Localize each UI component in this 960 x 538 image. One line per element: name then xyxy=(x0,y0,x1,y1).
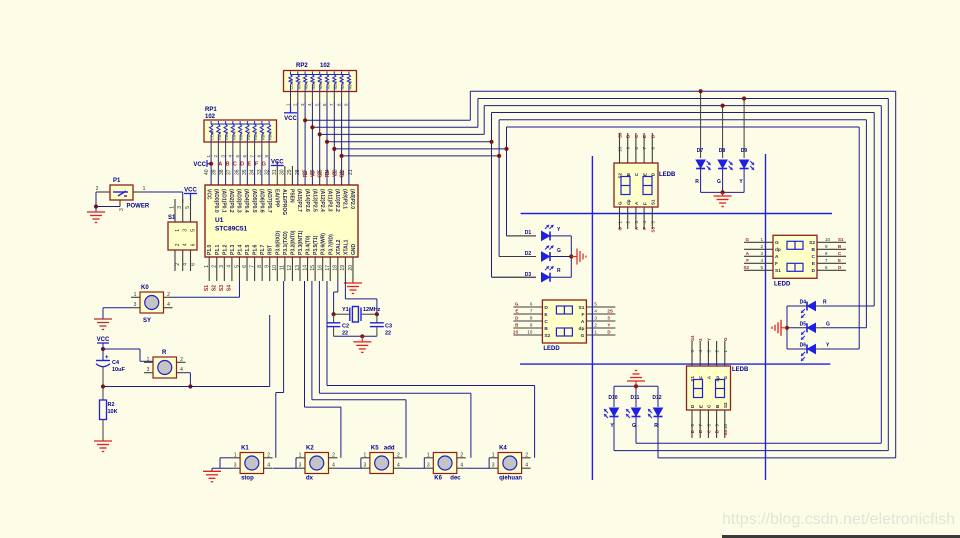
LEDB pin stub bottom 5 xyxy=(651,207,653,229)
svg-text:1: 1 xyxy=(364,452,367,458)
K0 pin 2 wire to U1 P1.4 xyxy=(173,296,240,298)
svg-text:5: 5 xyxy=(234,265,240,268)
svg-text:PSEN: PSEN xyxy=(289,189,295,203)
svg-text:B: B xyxy=(544,326,548,332)
svg-text:14: 14 xyxy=(302,265,308,271)
junction D7-D9 ground xyxy=(721,190,725,194)
svg-text:C3: C3 xyxy=(385,324,392,330)
svg-text:S1: S1 xyxy=(690,376,695,382)
LEDB pin stub top 1 xyxy=(724,341,726,366)
LEDB pin stub bottom 3 xyxy=(635,207,637,229)
svg-text:S3: S3 xyxy=(650,227,655,233)
power VCC above U1 EA pin xyxy=(276,161,278,166)
capacitor C4 10uF xyxy=(102,349,104,360)
RP2 resistor element R8-3 xyxy=(311,72,313,75)
svg-text:32: 32 xyxy=(265,169,271,175)
svg-text:LEDD: LEDD xyxy=(543,346,560,352)
svg-text:D1: D1 xyxy=(525,230,532,236)
svg-text:COM: COM xyxy=(289,80,294,89)
svg-text:G2: G2 xyxy=(318,171,324,178)
svg-text:40: 40 xyxy=(204,169,210,175)
wire net G2 bus (D8/D11) xyxy=(320,133,485,135)
svg-text:STC89C51: STC89C51 xyxy=(215,226,248,233)
LEDD pin stub left 7 xyxy=(513,313,542,315)
wire K5 to U1 P3.4 xyxy=(405,400,407,458)
wire D1-D3 cathode rail xyxy=(551,235,572,237)
svg-text:VCC: VCC xyxy=(284,116,297,122)
RP2 resistor element R8-8 xyxy=(348,72,350,75)
svg-text:4: 4 xyxy=(227,265,233,268)
svg-text:36: 36 xyxy=(234,169,240,175)
svg-text:4: 4 xyxy=(183,263,189,266)
junction RP2 net 5 xyxy=(332,147,336,151)
svg-text:1: 1 xyxy=(170,206,176,209)
RP1 pin 9 wire to U1 xyxy=(268,142,270,156)
svg-text:F: F xyxy=(581,312,584,318)
svg-text:C2: C2 xyxy=(342,324,349,330)
RP2 resistor element R8-4 xyxy=(319,72,321,75)
junction on G1 bus xyxy=(497,154,501,158)
svg-text:4: 4 xyxy=(183,243,189,246)
LEDD pin stub left 6 xyxy=(513,306,542,308)
svg-text:U1: U1 xyxy=(215,217,224,224)
svg-text:(A12)P2.4: (A12)P2.4 xyxy=(319,189,325,212)
svg-text:S2: S2 xyxy=(809,240,815,246)
svg-text:(AD7)P0.7: (AD7)P0.7 xyxy=(266,189,272,213)
svg-text:D: D xyxy=(240,162,244,168)
svg-text:2: 2 xyxy=(460,452,463,458)
svg-text:D7: D7 xyxy=(697,148,704,154)
svg-text:2: 2 xyxy=(175,243,181,246)
svg-text:E: E xyxy=(248,162,252,168)
svg-text:GND: GND xyxy=(351,244,357,256)
svg-text:ALE/PROG: ALE/PROG xyxy=(281,189,287,215)
svg-text:29: 29 xyxy=(287,169,293,175)
svg-text:R8-2: R8-2 xyxy=(304,80,309,89)
svg-text:(A15)P2.7: (A15)P2.7 xyxy=(296,189,302,212)
svg-text:D: D xyxy=(812,268,816,274)
RP1 pin 8 wire to U1 xyxy=(261,142,263,156)
svg-text:4: 4 xyxy=(180,367,183,373)
svg-text:F: F xyxy=(642,227,647,230)
LED D7 xyxy=(700,91,702,158)
svg-text:P1.5: P1.5 xyxy=(245,244,251,255)
junction C4 R2 reset xyxy=(101,384,105,388)
push button K0 SY xyxy=(140,292,164,313)
svg-text:102: 102 xyxy=(320,63,331,69)
svg-text:C: C xyxy=(544,319,548,325)
svg-text:(AD0)P0.0: (AD0)P0.0 xyxy=(213,189,219,213)
push button R reset xyxy=(153,357,177,378)
svg-text:F: F xyxy=(698,376,703,379)
svg-text:1: 1 xyxy=(204,265,210,268)
LED D1 xyxy=(507,235,537,237)
svg-text:20: 20 xyxy=(348,265,354,271)
wire crystal ground rail xyxy=(334,335,377,337)
ground at U1 GND pin xyxy=(352,281,354,283)
LEDD pin stub left 10 xyxy=(513,334,542,336)
wire net Y1 bus (D1/D6) xyxy=(334,148,506,150)
RP2 resistor element R8-2 xyxy=(304,72,306,75)
LEDD pin stub left 1 xyxy=(744,241,773,243)
svg-text:D3: D3 xyxy=(525,272,532,278)
junction crystal ground xyxy=(360,334,364,338)
svg-text:dp: dp xyxy=(775,247,781,253)
svg-text:F: F xyxy=(642,202,647,205)
ground at P1 xyxy=(95,207,97,213)
svg-text:(A10)P2.2: (A10)P2.2 xyxy=(334,189,340,212)
svg-text:D2: D2 xyxy=(525,251,532,257)
svg-text:3: 3 xyxy=(119,208,125,211)
svg-text:P1.3: P1.3 xyxy=(230,244,236,255)
display LEDD xyxy=(542,300,586,343)
svg-text:qiehuan: qiehuan xyxy=(499,476,522,482)
RP1 resistor element R8-5 xyxy=(246,121,248,124)
RP2 pin 3 wire to U1 P2 xyxy=(304,92,306,104)
LEDD pin stub right 8 xyxy=(817,255,846,257)
junction RP2 net 4 xyxy=(325,140,329,144)
svg-text:P3.2(INT0): P3.2(INT0) xyxy=(290,230,296,255)
svg-text:22: 22 xyxy=(385,331,391,337)
svg-text:4: 4 xyxy=(332,463,335,469)
K0 pin 3 wire to ground xyxy=(103,307,131,309)
svg-text:G: G xyxy=(717,179,721,185)
svg-text:LEDB: LEDB xyxy=(732,367,749,373)
svg-text:E: E xyxy=(642,173,647,176)
LEDB pin stub bottom 7 xyxy=(699,410,701,438)
RP1 pin 5 wire to U1 xyxy=(239,142,241,156)
svg-text:D10: D10 xyxy=(608,395,617,401)
svg-text:30: 30 xyxy=(280,169,286,175)
P1 pin 3 wire xyxy=(119,200,121,207)
svg-text:2: 2 xyxy=(267,452,270,458)
ground at R2 xyxy=(94,440,112,442)
svg-text:G: G xyxy=(557,248,561,254)
svg-text:G: G xyxy=(618,227,623,231)
svg-text:2: 2 xyxy=(167,292,170,298)
svg-text:38: 38 xyxy=(219,169,225,175)
svg-text:18: 18 xyxy=(333,265,339,271)
svg-text:dp: dp xyxy=(715,376,720,382)
svg-text:D9: D9 xyxy=(741,148,748,154)
junction D10-D12 ground xyxy=(634,384,638,388)
LEDB pin stub bottom 9 xyxy=(716,410,718,438)
LEDB pin stub bottom 6 xyxy=(691,410,693,438)
svg-text:1: 1 xyxy=(143,186,146,192)
junction on R1 bus xyxy=(489,140,493,144)
svg-text:C: C xyxy=(812,254,816,260)
svg-text:S2: S2 xyxy=(743,265,749,270)
RP2 pin 5 wire to U1 P2 xyxy=(319,92,321,104)
svg-text:S1: S1 xyxy=(204,285,210,291)
svg-text:G: G xyxy=(515,302,519,307)
svg-text:10: 10 xyxy=(825,237,831,242)
LEDB pin stub bottom 4 xyxy=(643,207,645,229)
display LEDD xyxy=(773,235,817,278)
svg-text:R8-4: R8-4 xyxy=(239,131,244,140)
RP1 pin 1 wire to U1 xyxy=(210,142,212,156)
wire net R2 bus (D7/D12) xyxy=(305,119,470,121)
svg-text:3: 3 xyxy=(219,265,225,268)
svg-text:S1: S1 xyxy=(579,305,585,311)
svg-text:9: 9 xyxy=(265,265,271,268)
svg-text:P1.4: P1.4 xyxy=(237,244,243,255)
svg-text:(AD6)P0.6: (AD6)P0.6 xyxy=(258,189,264,213)
svg-text:G1: G1 xyxy=(340,171,346,178)
svg-text:https://blog.csdn.net/eletroni: https://blog.csdn.net/eletronicfish xyxy=(722,511,955,528)
LED D4 xyxy=(807,302,816,311)
LEDD pin stub right 6 xyxy=(817,269,846,271)
svg-text:1: 1 xyxy=(492,452,495,458)
RP2 resistor element R8-5 xyxy=(326,72,328,75)
svg-text:R8-1: R8-1 xyxy=(296,80,301,89)
svg-text:R8-3: R8-3 xyxy=(311,80,316,89)
svg-text:R2: R2 xyxy=(108,402,115,408)
wire K6-K4 chain xyxy=(466,467,489,469)
svg-text:POWER: POWER xyxy=(127,204,150,210)
svg-text:4: 4 xyxy=(460,463,463,469)
svg-text:F: F xyxy=(775,261,778,267)
wire crossroad horizontal lower xyxy=(520,363,830,365)
svg-text:R8-1: R8-1 xyxy=(217,131,222,140)
wire K6 to U1 P3.5 xyxy=(470,393,472,458)
LEDB pin stub top 10 xyxy=(619,133,621,163)
svg-text:2: 2 xyxy=(397,452,400,458)
svg-text:S4: S4 xyxy=(690,335,695,341)
svg-text:P1: P1 xyxy=(113,178,121,184)
RP1 resistor element R8-4 xyxy=(239,121,241,124)
svg-text:5: 5 xyxy=(185,206,191,209)
ground above D10-D12 xyxy=(635,381,637,386)
svg-text:10: 10 xyxy=(723,424,728,430)
LEDD pin stub right 1 xyxy=(586,334,615,336)
capacitor C2 22 xyxy=(333,314,335,322)
svg-text:R8-7: R8-7 xyxy=(340,80,345,89)
svg-text:4: 4 xyxy=(267,463,270,469)
svg-text:R: R xyxy=(823,300,827,306)
wire net R1 bus (D3/D4) xyxy=(327,141,492,143)
svg-text:S1: S1 xyxy=(775,268,781,274)
S1 pin 5 stub xyxy=(190,199,192,222)
svg-text:19: 19 xyxy=(340,265,346,271)
resistor network RP2 102 xyxy=(284,71,357,92)
svg-text:1: 1 xyxy=(147,357,150,363)
svg-text:D12: D12 xyxy=(652,395,661,401)
svg-text:R1: R1 xyxy=(325,171,331,178)
LEDD pin stub right 7 xyxy=(817,262,846,264)
push button K4 xyxy=(498,453,521,474)
junction VCC / RP1 COM / U1 VCC xyxy=(209,162,213,166)
svg-text:R8-8: R8-8 xyxy=(347,80,352,89)
svg-text:XTAL1: XTAL1 xyxy=(343,239,349,255)
svg-text:C4: C4 xyxy=(112,360,120,366)
S1 pin 6 stub xyxy=(190,250,192,271)
wire K1-K2 chain xyxy=(273,467,296,469)
svg-text:(AD1)P0.1: (AD1)P0.1 xyxy=(221,189,227,213)
svg-text:6: 6 xyxy=(191,243,197,246)
svg-text:3: 3 xyxy=(147,367,150,373)
svg-text:D5: D5 xyxy=(800,321,807,327)
svg-text:P3.1(TXD): P3.1(TXD) xyxy=(283,231,289,255)
svg-text:dp: dp xyxy=(579,326,585,332)
LEDD pin stub right 2 xyxy=(586,327,615,329)
wire D10-D12 anode rail xyxy=(614,385,658,387)
svg-text:102: 102 xyxy=(205,114,216,120)
LEDB pin stub top 6 xyxy=(651,133,653,163)
LEDD pin stub left 3 xyxy=(744,255,773,257)
svg-text:P1.7: P1.7 xyxy=(260,244,266,255)
svg-text:S3: S3 xyxy=(723,430,728,436)
RP1 pin 3 wire to U1 xyxy=(225,142,227,156)
svg-text:3: 3 xyxy=(492,463,495,469)
RP2 COM wire to VCC xyxy=(290,92,292,109)
svg-text:R8-2: R8-2 xyxy=(224,131,229,140)
svg-text:P3.6(WR): P3.6(WR) xyxy=(321,233,327,255)
LEDD pin stub left 4 xyxy=(744,262,773,264)
RP1 resistor element R8-6 xyxy=(254,121,256,124)
svg-text:E: E xyxy=(515,309,518,314)
svg-text:1: 1 xyxy=(234,452,237,458)
svg-text:K6: K6 xyxy=(434,476,442,482)
svg-text:S2: S2 xyxy=(618,173,623,179)
power VCC at S1 pin 5 xyxy=(190,194,192,201)
svg-text:A: A xyxy=(218,162,222,168)
resistor network RP1 102 xyxy=(204,120,277,142)
wire U1 XTAL1 to crystal xyxy=(344,281,346,299)
svg-text:S2: S2 xyxy=(544,333,550,339)
svg-text:E: E xyxy=(698,405,703,408)
wire reset net to U1 RST xyxy=(103,386,270,388)
svg-text:dx: dx xyxy=(306,476,314,482)
LEDD pin stub left 5 xyxy=(744,269,773,271)
svg-text:(A11)P2.3: (A11)P2.3 xyxy=(326,189,332,212)
svg-text:4: 4 xyxy=(525,463,528,469)
svg-text:(AD4)P0.4: (AD4)P0.4 xyxy=(243,189,249,213)
svg-text:G: G xyxy=(262,162,266,168)
wire K2-K5 chain xyxy=(338,467,361,469)
svg-text:R8-5: R8-5 xyxy=(246,131,251,140)
RP2 pin 8 wire to U1 P2 xyxy=(341,92,343,104)
LEDB pin stub top 9 xyxy=(627,133,629,163)
svg-text:Y: Y xyxy=(706,338,711,341)
svg-text:S1: S1 xyxy=(838,237,844,242)
junction RP2 net 3 xyxy=(318,132,322,136)
capacitor C3 22 xyxy=(376,314,378,322)
svg-text:RP1: RP1 xyxy=(205,107,217,113)
svg-text:(AD5)P0.5: (AD5)P0.5 xyxy=(251,189,257,213)
svg-text:31: 31 xyxy=(272,169,278,175)
svg-text:3: 3 xyxy=(183,229,189,232)
svg-text:(AD3)P0.3: (AD3)P0.3 xyxy=(236,189,242,213)
svg-text:(A14)P2.6: (A14)P2.6 xyxy=(304,189,310,212)
RP1 resistor element COM xyxy=(210,121,212,124)
svg-text:G: G xyxy=(723,376,728,380)
LEDB pin stub top 3 xyxy=(707,341,709,366)
svg-text:K1: K1 xyxy=(241,446,249,452)
svg-text:D4: D4 xyxy=(800,300,807,306)
LEDB pin stub bottom 10 xyxy=(724,410,726,438)
junction RP2 net 6 xyxy=(340,154,344,158)
push button K5 xyxy=(370,453,394,474)
svg-text:1S: 1S xyxy=(513,330,519,335)
svg-text:R2: R2 xyxy=(303,171,309,178)
svg-text:add: add xyxy=(384,446,395,452)
svg-text:3: 3 xyxy=(364,463,367,469)
svg-text:7: 7 xyxy=(249,265,255,268)
svg-text:P3.5(T1): P3.5(T1) xyxy=(313,235,319,255)
svg-text:12: 12 xyxy=(287,265,293,271)
svg-text:1: 1 xyxy=(427,452,430,458)
svg-text:G: G xyxy=(723,337,728,341)
svg-text:G: G xyxy=(581,333,585,339)
LED D8 xyxy=(722,106,724,158)
ground left of D4-D6 xyxy=(781,327,787,329)
svg-text:VCC: VCC xyxy=(271,160,284,166)
svg-text:K2: K2 xyxy=(306,446,314,452)
svg-text:VCC: VCC xyxy=(193,162,206,168)
svg-text:1: 1 xyxy=(299,452,302,458)
svg-text:D11: D11 xyxy=(631,395,640,401)
junction D1-D3 ground xyxy=(569,254,573,258)
svg-text:P1.0: P1.0 xyxy=(207,244,213,255)
svg-text:5: 5 xyxy=(191,229,197,232)
junction P1 ground xyxy=(94,204,98,208)
connector P1 POWER xyxy=(110,185,133,200)
LEDD pin stub right 3 xyxy=(586,320,615,322)
svg-text:D8: D8 xyxy=(719,148,726,154)
RP1 resistor element R8-1 xyxy=(217,121,219,124)
svg-text:1: 1 xyxy=(134,292,137,298)
svg-text:A: A xyxy=(775,254,779,260)
svg-text:8: 8 xyxy=(257,265,263,268)
svg-text:Y1: Y1 xyxy=(342,307,349,313)
svg-text:13: 13 xyxy=(295,265,301,271)
LED D11 xyxy=(632,408,641,417)
RP2 pin 2 wire to U1 P2 xyxy=(297,92,299,104)
LEDB pin stub top 2 xyxy=(716,341,718,366)
junction on Y1 bus xyxy=(504,147,508,151)
svg-text:3: 3 xyxy=(234,463,237,469)
wire K1 to U1 P3.1 xyxy=(275,393,277,458)
S1 pin 1 stub xyxy=(174,199,176,222)
svg-text:S2: S2 xyxy=(212,285,218,291)
LED D3 xyxy=(492,276,537,278)
RP1 resistor element R8-7 xyxy=(261,121,263,124)
LED D12 xyxy=(654,408,663,417)
LEDD pin stub left 8 xyxy=(513,320,542,322)
ground at K1 xyxy=(220,457,231,459)
LEDD pin stub left 9 xyxy=(513,327,542,329)
svg-text:E: E xyxy=(642,135,647,138)
svg-text:10: 10 xyxy=(618,147,623,153)
svg-text:S2: S2 xyxy=(723,402,728,408)
wire K5-K6 chain xyxy=(402,467,424,469)
svg-text:+: + xyxy=(105,355,109,361)
svg-text:R8-6: R8-6 xyxy=(333,80,338,89)
LEDB pin stub top 7 xyxy=(643,133,645,163)
display LEDB xyxy=(687,366,731,410)
ground at K0 xyxy=(94,318,112,320)
svg-text:22: 22 xyxy=(342,331,348,337)
LEDD pin stub right 4 xyxy=(586,313,615,315)
svg-text:37: 37 xyxy=(227,169,233,175)
op-amp U1 microcontroller STC89C51 xyxy=(205,185,358,257)
svg-text:LEDB: LEDB xyxy=(659,172,676,178)
svg-text:R8-4: R8-4 xyxy=(318,80,323,89)
wire net Y2 bus (D9/D10) xyxy=(312,126,478,128)
LEDD pin stub left 2 xyxy=(744,248,773,250)
S1 pin 2 stub xyxy=(174,250,176,271)
